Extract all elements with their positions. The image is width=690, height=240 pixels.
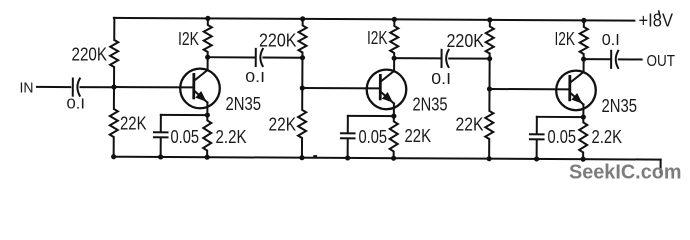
svg-text:0.05: 0.05: [359, 127, 388, 147]
svg-text:22K: 22K: [405, 126, 432, 146]
svg-text:0.I: 0.I: [67, 96, 86, 113]
svg-text:2N35: 2N35: [413, 95, 448, 115]
svg-text:I2K: I2K: [178, 29, 199, 49]
svg-text:22K: 22K: [269, 115, 297, 135]
svg-text:OUT: OUT: [647, 53, 676, 70]
svg-text:220K: 220K: [447, 31, 485, 51]
svg-text:I2K: I2K: [555, 29, 576, 49]
svg-text:220K: 220K: [72, 45, 108, 65]
svg-text:220K: 220K: [259, 31, 297, 51]
svg-text:SeekIC.com: SeekIC.com: [569, 162, 682, 184]
svg-text:2N35: 2N35: [602, 96, 638, 116]
svg-text:22K: 22K: [456, 115, 484, 135]
svg-text:IN: IN: [20, 80, 34, 97]
svg-text:0.I: 0.I: [431, 71, 451, 88]
svg-text:0.I: 0.I: [602, 32, 620, 49]
svg-text:0.05: 0.05: [171, 127, 200, 147]
svg-text:0.I: 0.I: [245, 69, 265, 86]
svg-text:0.05: 0.05: [548, 127, 577, 147]
svg-text:+I8V: +I8V: [639, 11, 674, 31]
svg-text:22K: 22K: [120, 114, 147, 134]
svg-text:I2K: I2K: [367, 28, 388, 48]
svg-text:2N35: 2N35: [226, 94, 262, 114]
svg-text:2.2K: 2.2K: [592, 127, 623, 147]
svg-text:2.2K: 2.2K: [216, 127, 247, 147]
